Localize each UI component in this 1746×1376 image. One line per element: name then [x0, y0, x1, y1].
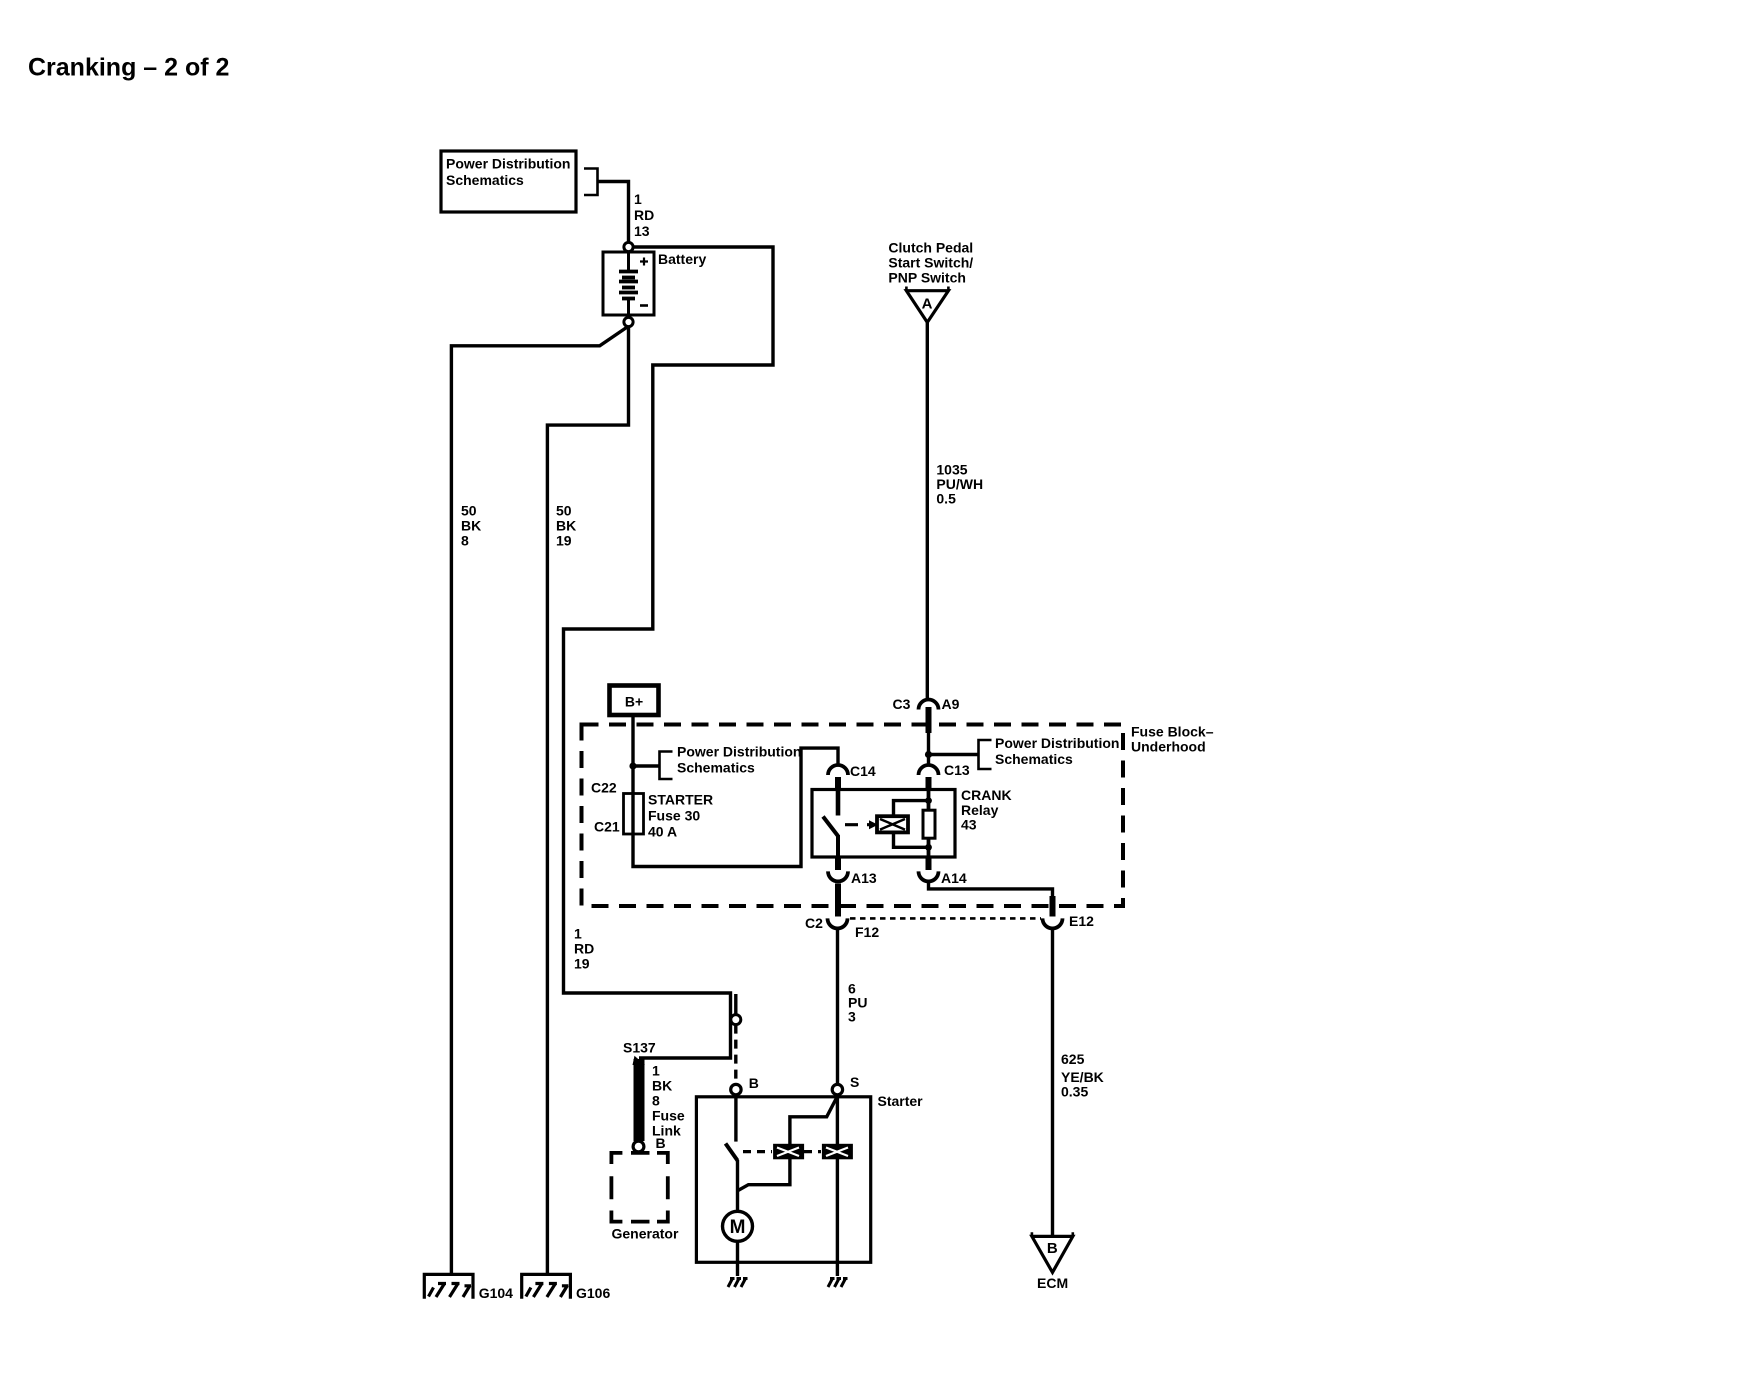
battery negative terminal node — [624, 317, 633, 326]
generator terminal node — [633, 1141, 644, 1152]
ground G106 — [522, 1274, 571, 1298]
svg-text:C2: C2 — [805, 915, 823, 931]
svg-text:Power Distribution: Power Distribution — [995, 735, 1119, 751]
connector E12 arc — [1043, 918, 1063, 928]
svg-text:Fuse: Fuse — [652, 1108, 685, 1124]
relay contact lower stub — [836, 835, 840, 857]
svg-text:C13: C13 — [944, 762, 970, 778]
connector A14 arc — [919, 871, 939, 881]
svg-text:50: 50 — [461, 503, 477, 519]
fuse block underhood dashed border — [582, 725, 1124, 907]
generator dashed box — [611, 1153, 667, 1222]
svg-text:B: B — [749, 1075, 759, 1091]
starter hold-in winding coil — [823, 1145, 852, 1159]
relay coil box with X — [877, 816, 908, 832]
connector C13 arc — [919, 765, 939, 775]
svg-text:G104: G104 — [479, 1285, 513, 1301]
connector C14 stub — [835, 777, 841, 790]
svg-text:8: 8 — [652, 1093, 660, 1109]
wire B+ to fuse C22 — [631, 715, 634, 794]
relay coil parallel branch wires — [894, 801, 929, 848]
power distribution reference box PD1 — [441, 151, 576, 212]
connector C2/F12 arc — [828, 918, 848, 928]
junction node coil top — [925, 797, 932, 804]
starter motor box — [696, 1097, 870, 1263]
svg-text:Fuse Block–: Fuse Block– — [1131, 724, 1214, 740]
svg-text:1: 1 — [652, 1063, 660, 1079]
dashed attachment to starter B terminal — [734, 1025, 737, 1084]
svg-text:Starter: Starter — [878, 1093, 924, 1109]
battery plus sign — [640, 258, 648, 266]
svg-text:50: 50 — [556, 503, 572, 519]
starter motor feed wire — [736, 1160, 739, 1211]
starter pull-in winding coil — [774, 1145, 803, 1159]
svg-text:RD: RD — [574, 941, 594, 957]
svg-text:M: M — [730, 1217, 746, 1238]
svg-text:19: 19 — [556, 533, 572, 549]
ground G104 — [424, 1274, 473, 1298]
wire C13 feed with junction — [927, 733, 930, 765]
svg-text:S137: S137 — [623, 1040, 656, 1056]
relay resistor element — [923, 810, 935, 838]
svg-text:1: 1 — [634, 191, 642, 207]
svg-text:G106: G106 — [576, 1285, 610, 1301]
svg-text:PNP Switch: PNP Switch — [888, 270, 966, 286]
off-page connector bracket at PD1 — [584, 169, 598, 196]
wire junction to PD3 bracket — [929, 753, 978, 756]
ground chassis at starter motor — [728, 1279, 748, 1288]
connector A13 arc — [828, 871, 848, 881]
svg-text:Schematics: Schematics — [677, 760, 755, 776]
relay K crank relay box — [812, 790, 955, 858]
battery cell plates — [627, 252, 630, 270]
svg-text:B: B — [656, 1135, 666, 1151]
wire battery negative to G104 (50 BK 8) — [451, 327, 628, 1275]
starter hold-in winding feed — [836, 1095, 839, 1145]
starter solenoid dashed linkage — [743, 1150, 772, 1153]
off-page triangle A (clutch pedal start switch) — [906, 291, 948, 323]
starter solenoid contact feed from B — [734, 1095, 737, 1142]
svg-text:ECM: ECM — [1037, 1275, 1068, 1291]
svg-text:Clutch Pedal: Clutch Pedal — [888, 240, 973, 256]
starter solenoid contact blade — [726, 1144, 738, 1161]
svg-text:A14: A14 — [941, 870, 967, 886]
relay main branch lower — [927, 838, 931, 857]
fuse STARTER Fuse 30 40A — [624, 794, 644, 835]
svg-text:C3: C3 — [893, 696, 911, 712]
svg-text:3: 3 — [848, 1009, 856, 1025]
battery B box — [603, 252, 654, 315]
B+ power tag box — [610, 686, 659, 716]
svg-text:1: 1 — [574, 926, 582, 942]
wire E12 to ECM (625 YE/BK 0.35) — [1051, 928, 1054, 1236]
svg-text:C21: C21 — [594, 819, 620, 835]
svg-text:A13: A13 — [851, 870, 877, 886]
svg-text:8: 8 — [461, 533, 469, 549]
svg-text:E12: E12 — [1069, 913, 1094, 929]
connector C3/A9 terminal stub — [926, 707, 932, 733]
svg-text:A9: A9 — [942, 696, 960, 712]
off-page triangle B (ECM) — [1032, 1236, 1073, 1272]
battery positive terminal node — [624, 242, 633, 251]
starter pull-in winding to motor wire — [738, 1158, 790, 1190]
svg-text:13: 13 — [634, 223, 650, 239]
off-page connector bracket PD3 — [979, 740, 992, 769]
svg-text:Schematics: Schematics — [446, 172, 524, 188]
fusible link S137 (1 BK 8 Fuse Link) — [634, 1059, 645, 1141]
connector E12 stub — [1050, 896, 1056, 917]
connector boundary dashed line C2 to E12 — [850, 917, 1041, 920]
wire battery positive cable 1 RD 19 loop to S137 — [564, 247, 774, 1058]
starter S terminal node — [832, 1084, 842, 1094]
svg-text:B: B — [1047, 1240, 1058, 1257]
starter motor ground wire — [736, 1241, 739, 1276]
svg-text:C22: C22 — [591, 780, 617, 796]
svg-text:CRANK: CRANK — [961, 787, 1012, 803]
svg-text:RD: RD — [634, 207, 654, 223]
wire PD1 to battery positive — [598, 182, 629, 243]
svg-text:0.35: 0.35 — [1061, 1084, 1088, 1100]
starter B terminal node — [731, 1084, 741, 1094]
svg-text:625: 625 — [1061, 1051, 1085, 1067]
wire C2 to starter S terminal (6 PU 3) — [836, 928, 839, 1084]
svg-text:Start Switch/: Start Switch/ — [888, 255, 973, 271]
svg-text:Power Distribution: Power Distribution — [677, 744, 801, 760]
relay contact fixed stub — [836, 790, 841, 816]
junction node on fuse feed — [629, 762, 636, 769]
svg-text:40 A: 40 A — [648, 824, 677, 840]
node battery cable tap upper circle — [734, 994, 737, 1015]
svg-text:Fuse 30: Fuse 30 — [648, 808, 700, 824]
connector A14 stub above — [926, 857, 932, 870]
ground chassis at starter solenoid — [828, 1279, 848, 1288]
svg-text:A: A — [922, 296, 933, 313]
relay main branch upper — [927, 790, 931, 811]
svg-text:Power Distribution: Power Distribution — [446, 156, 570, 172]
starter motor M — [723, 1211, 753, 1241]
svg-text:43: 43 — [961, 817, 977, 833]
svg-text:0.5: 0.5 — [936, 491, 956, 507]
starter hold-in winding ground wire — [836, 1158, 839, 1276]
svg-text:Schematics: Schematics — [995, 751, 1073, 767]
svg-text:Generator: Generator — [612, 1226, 679, 1242]
svg-text:F12: F12 — [855, 924, 879, 940]
wire junction to PD bracket — [633, 764, 659, 767]
svg-text:BK: BK — [461, 518, 481, 534]
wire battery negative to G106 (50 BK 19) — [547, 327, 628, 1275]
junction node to PD3 — [925, 751, 932, 758]
relay coil arrow tip — [869, 820, 878, 829]
svg-text:Cranking – 2 of 2: Cranking – 2 of 2 — [28, 54, 229, 82]
svg-text:Battery: Battery — [658, 251, 706, 267]
svg-text:19: 19 — [574, 956, 590, 972]
relay actuation dashed link — [845, 823, 869, 826]
connector C14 arc — [828, 765, 848, 775]
connector C13 stub — [926, 777, 932, 790]
connector A13 to C2 stub — [835, 884, 841, 917]
svg-text:C14: C14 — [850, 763, 876, 779]
connector A13 stub above — [835, 857, 841, 870]
svg-text:Underhood: Underhood — [1131, 739, 1206, 755]
connector C3/A9 arc at fuse block — [919, 700, 939, 710]
off-page connector bracket PD2 — [660, 752, 673, 780]
wire A14 to E12 — [929, 881, 1053, 898]
svg-text:BK: BK — [652, 1078, 672, 1094]
wire fuse output to relay C14 — [633, 748, 838, 866]
svg-text:STARTER: STARTER — [648, 792, 713, 808]
relay contact blade — [823, 817, 838, 837]
wire 1035 PU/WH from triangle A to C3 — [926, 322, 929, 700]
svg-text:B+: B+ — [625, 694, 643, 710]
starter pull-in winding feed from S — [790, 1097, 837, 1145]
svg-text:BK: BK — [556, 518, 576, 534]
svg-text:S: S — [850, 1074, 859, 1090]
junction node coil bottom — [925, 844, 932, 851]
battery minus sign — [640, 304, 648, 307]
